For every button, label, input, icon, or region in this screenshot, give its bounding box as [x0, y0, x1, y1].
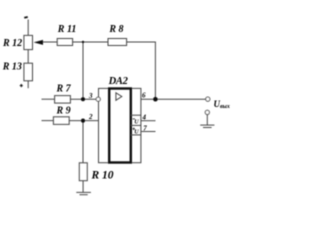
inversion circle pin3	[96, 97, 100, 101]
resistor R11	[57, 39, 72, 46]
terminal circle output	[206, 97, 210, 101]
minus sign of -U label	[133, 118, 136, 120]
wire terminal to ground	[206, 115, 208, 126]
svg-text:3: 3	[88, 92, 93, 100]
svg-text:2: 2	[88, 113, 93, 121]
wire R9 input stub	[42, 120, 54, 122]
wire pin2 node to R10	[82, 121, 84, 163]
svg-text:R 11: R 11	[57, 24, 77, 35]
wire R13 bottom terminal	[27, 81, 29, 88]
wire pin4 stub	[141, 120, 156, 122]
svg-text:R 8: R 8	[108, 24, 123, 35]
terminal circle ground	[205, 110, 209, 114]
wire pin7 stub	[141, 131, 156, 133]
terminal plus mark	[20, 85, 23, 86]
svg-text:R 9: R 9	[56, 106, 71, 117]
wire feedback vertical	[82, 42, 84, 99]
op-amp triangle	[116, 93, 122, 101]
wire R10 to ground	[82, 181, 84, 193]
resistor R7	[55, 96, 71, 104]
wire wiper arrow to R11	[42, 41, 57, 43]
wire R8 to corner	[127, 42, 156, 99]
op-amp right field cell dividers	[131, 114, 141, 116]
wire R7 input stub	[42, 98, 55, 100]
terminal minus mark	[24, 16, 28, 19]
svg-text:R 10: R 10	[91, 170, 114, 182]
svg-text:R 7: R 7	[56, 84, 72, 95]
resistor R10	[79, 163, 87, 181]
wire R12-R13	[27, 50, 29, 64]
wire pin6 output	[141, 98, 206, 100]
wiper arrowhead R12	[34, 40, 43, 45]
ground output	[200, 124, 214, 126]
svg-text:U: U	[134, 130, 139, 136]
resistor R8	[108, 39, 127, 46]
svg-text:6: 6	[142, 92, 146, 100]
node output junction	[153, 97, 158, 102]
svg-text:R 12: R 12	[2, 38, 22, 49]
wire R11 to R8	[73, 41, 108, 43]
op-amp U1 main field	[109, 89, 131, 163]
ground	[76, 191, 91, 193]
resistor R13	[24, 63, 33, 81]
potentiometer R12	[24, 35, 33, 49]
svg-text:7: 7	[143, 124, 147, 132]
plus sign of +U label	[132, 128, 135, 130]
svg-text:DA2: DA2	[108, 76, 129, 87]
svg-text:R 13: R 13	[2, 61, 22, 72]
node pin2 junction	[81, 119, 85, 123]
svg-text:4: 4	[142, 113, 147, 121]
op-amp U1 outer box	[99, 88, 141, 162]
node pin3 junction	[81, 97, 85, 101]
svg-text:U: U	[134, 120, 139, 126]
node feedback tee	[82, 41, 84, 43]
terminal minus wire	[27, 20, 29, 36]
wire R7 to pin3	[70, 98, 96, 100]
svg-text:Uвых: Uвых	[214, 99, 230, 110]
wire R9 to pin2	[69, 120, 98, 122]
resistor R9	[53, 117, 69, 125]
